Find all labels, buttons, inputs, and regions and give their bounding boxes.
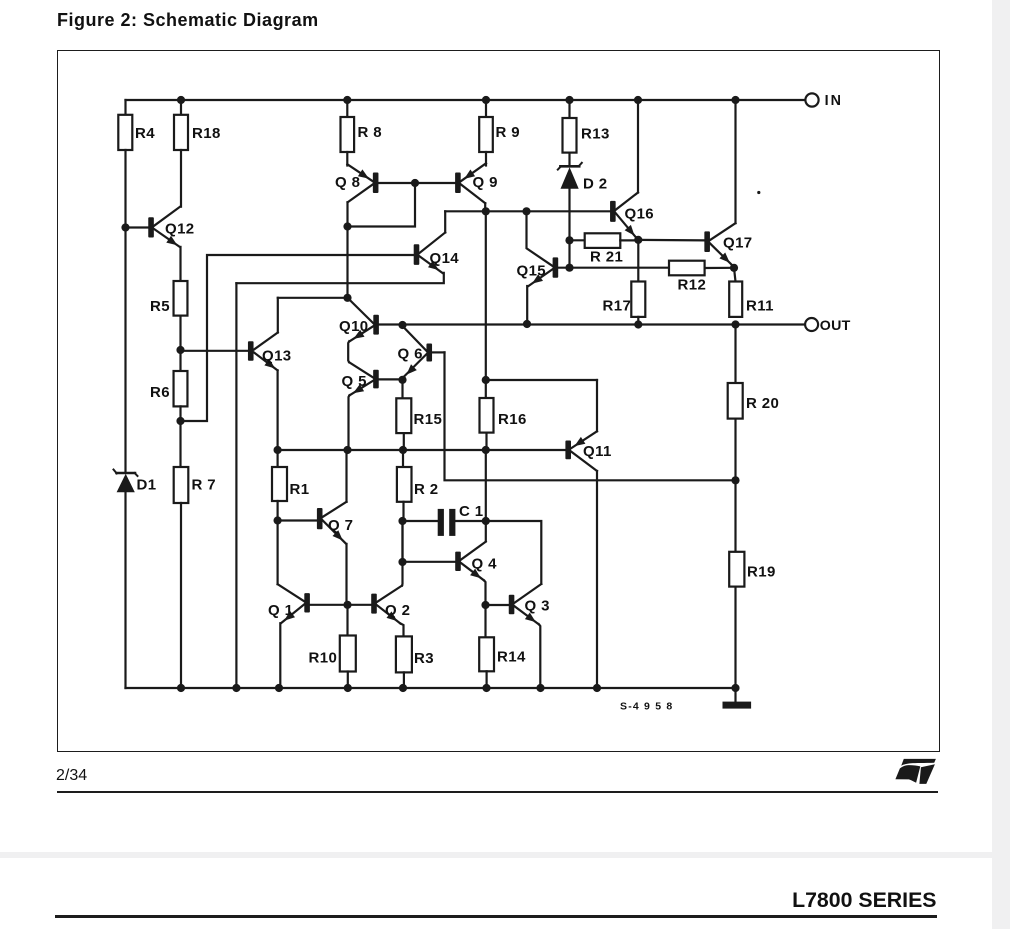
svg-text:R18: R18 xyxy=(192,125,221,142)
svg-text:R 8: R 8 xyxy=(358,124,383,141)
svg-text:R11: R11 xyxy=(746,298,774,315)
svg-text:R10: R10 xyxy=(309,650,338,667)
svg-text:R5: R5 xyxy=(150,298,170,315)
svg-text:Q 9: Q 9 xyxy=(473,174,498,191)
svg-text:R12: R12 xyxy=(678,277,707,294)
svg-text:Q14: Q14 xyxy=(430,250,460,267)
svg-text:D1: D1 xyxy=(137,477,157,494)
svg-text:S-4 9 5 8: S-4 9 5 8 xyxy=(620,701,673,713)
svg-text:Q 2: Q 2 xyxy=(385,602,410,619)
svg-text:R 21: R 21 xyxy=(590,249,623,266)
svg-text:Q 3: Q 3 xyxy=(525,598,550,615)
svg-text:Q13: Q13 xyxy=(262,348,292,365)
svg-text:R4: R4 xyxy=(135,125,155,142)
svg-text:R 20: R 20 xyxy=(746,395,779,412)
svg-text:Q17: Q17 xyxy=(723,235,753,252)
svg-text:Q 6: Q 6 xyxy=(398,346,423,363)
svg-text:R15: R15 xyxy=(414,411,443,428)
svg-text:Q16: Q16 xyxy=(625,206,655,223)
svg-text:Q 1: Q 1 xyxy=(268,602,293,619)
svg-text:Q11: Q11 xyxy=(583,443,612,460)
svg-text:Q12: Q12 xyxy=(165,221,195,238)
svg-text:Q 5: Q 5 xyxy=(342,373,367,390)
svg-text:R 2: R 2 xyxy=(414,481,439,498)
svg-text:IN: IN xyxy=(825,93,843,109)
svg-text:Q15: Q15 xyxy=(517,263,547,280)
svg-text:R 7: R 7 xyxy=(192,477,217,494)
svg-text:R14: R14 xyxy=(497,649,526,666)
svg-text:R3: R3 xyxy=(414,650,434,667)
svg-text:R1: R1 xyxy=(290,481,310,498)
svg-text:C 1: C 1 xyxy=(459,503,484,520)
svg-text:R17: R17 xyxy=(603,298,632,315)
svg-text:Q 7: Q 7 xyxy=(328,517,353,534)
svg-text:R6: R6 xyxy=(150,384,170,401)
svg-text:OUT: OUT xyxy=(820,318,851,334)
svg-text:Q 4: Q 4 xyxy=(472,556,498,573)
svg-text:R19: R19 xyxy=(747,564,776,581)
svg-text:D 2: D 2 xyxy=(583,176,608,193)
svg-text:Q10: Q10 xyxy=(339,318,369,335)
svg-text:R 9: R 9 xyxy=(496,124,521,141)
svg-text:Q 8: Q 8 xyxy=(335,174,360,191)
svg-text:R16: R16 xyxy=(498,411,527,428)
svg-text:R13: R13 xyxy=(581,126,610,143)
